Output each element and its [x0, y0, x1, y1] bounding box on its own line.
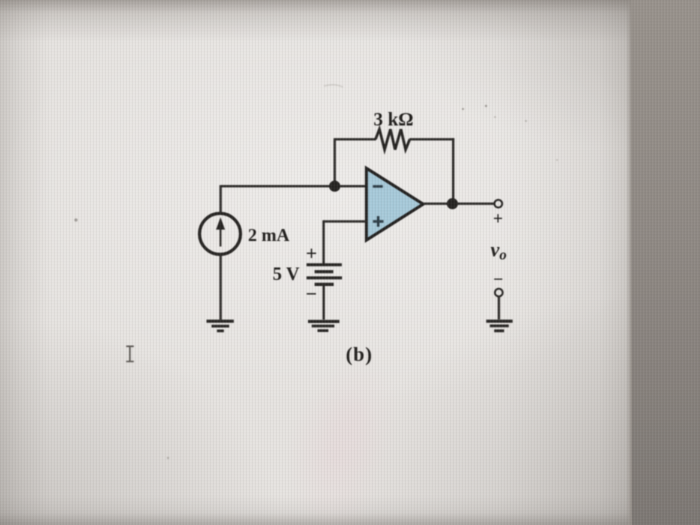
wire: feedback right vertical down to output node	[452, 138, 454, 204]
op-amp U1 triangle body	[366, 168, 423, 240]
terminal: output open circle bottom	[495, 289, 503, 297]
battery V1 plates	[307, 265, 343, 285]
wire: current source down to ground	[219, 255, 221, 320]
wire: inverting input horizontal (node to op-amp minus input)	[221, 185, 367, 187]
label: 5 V value	[273, 265, 301, 285]
dust specks upper right	[462, 105, 558, 161]
ground: battery side	[308, 321, 339, 330]
label: 3 kOhm value	[373, 110, 413, 131]
op-amp non-inverting input plus symbol	[373, 216, 384, 227]
node: inverting input junction dot	[329, 181, 340, 192]
label: figure caption (b)	[346, 344, 373, 366]
label: vo output voltage	[491, 240, 507, 264]
wire: feedback top horizontal left segment	[334, 138, 376, 140]
wire: non-inverting input horizontal	[324, 220, 367, 222]
current source I1 circle	[200, 213, 241, 254]
dust speck left	[74, 218, 169, 459]
ground: current source side	[207, 321, 234, 331]
op-amp inverting input minus symbol	[373, 185, 383, 188]
label: output minus polarity	[493, 269, 503, 289]
label: 2 mA value	[248, 225, 290, 245]
wire: top node down to current source	[219, 185, 221, 213]
faint smudge above resistor	[324, 85, 343, 87]
wire: feedback left vertical from inverting-input node up to resistor row	[334, 139, 336, 187]
wire: op-amp output to terminal	[423, 202, 494, 204]
current source arrow (pointing up)	[216, 217, 225, 246]
label: battery minus polarity	[306, 283, 317, 305]
wire: battery to ground	[323, 284, 325, 319]
wire: feedback top horizontal right segment	[409, 138, 454, 140]
ground: output side	[486, 321, 512, 331]
text cursor I-beam mark	[126, 346, 134, 361]
node: output junction dot	[447, 198, 458, 209]
wire: corner down from plus input to battery top	[322, 220, 324, 263]
label: battery plus polarity	[306, 243, 317, 265]
label: output plus polarity	[493, 208, 503, 228]
wire: bottom terminal to ground	[498, 297, 500, 320]
terminal: output open circle top	[494, 200, 502, 208]
resistor 3 kOhm zigzag	[376, 129, 410, 149]
